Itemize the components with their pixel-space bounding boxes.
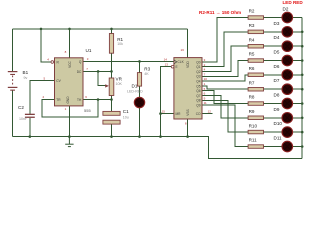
resistor R8 [248, 95, 263, 106]
svg-text:R3: R3 [144, 67, 150, 72]
wire U1 pin5 CV to C2 [30, 81, 55, 114]
battery B1 [8, 70, 29, 91]
wire rail to U1 vcc pin8 [69, 29, 71, 58]
wire R9 to D9 [264, 117, 283, 119]
wire C1 top lead [111, 100, 113, 112]
wire U2 Q0 to R2 row [202, 18, 248, 62]
LED D7 [274, 78, 293, 94]
svg-text:10k: 10k [117, 42, 123, 46]
svg-text:Q4: Q4 [196, 80, 200, 84]
wire D5 to bus [293, 60, 303, 62]
svg-text:TR: TR [56, 98, 61, 102]
svg-text:12: 12 [208, 110, 212, 114]
wire U2 MR pin15 [161, 113, 174, 115]
wire LED cathode bus [301, 18, 303, 159]
svg-text:D10: D10 [274, 121, 283, 126]
wire U2 vss pin8 [187, 119, 189, 137]
svg-text:Q9: Q9 [196, 104, 200, 108]
timer IC U1 555 [43, 48, 92, 113]
resistor R4 [248, 37, 263, 48]
svg-text:Q8: Q8 [196, 99, 200, 103]
LED D10 [274, 121, 293, 137]
svg-text:Q0: Q0 [196, 60, 200, 64]
svg-text:VSS: VSS [186, 109, 190, 115]
svg-text:10u: 10u [123, 115, 129, 119]
svg-text:10nF: 10nF [19, 117, 28, 121]
wire D1 to ground rail [139, 108, 141, 137]
svg-text:MR: MR [176, 112, 182, 116]
potentiometer VR [105, 77, 122, 96]
resistor R2 [248, 9, 263, 20]
svg-text:D8: D8 [274, 93, 280, 98]
wire U2 Q9 to R11 row [202, 105, 248, 146]
svg-text:D11: D11 [274, 136, 283, 141]
wire R7 to D7 [264, 88, 283, 90]
svg-text:E: E [176, 65, 178, 69]
svg-text:LED-RED: LED-RED [127, 89, 143, 93]
LED D2 [282, 7, 293, 23]
svg-text:10: 10 [204, 77, 208, 81]
wire U1 pin2 trigger loop [42, 99, 98, 117]
IC U2 4017 counter [162, 48, 212, 125]
wire R11 to D11 [264, 146, 283, 148]
LED D6 [274, 64, 293, 80]
svg-text:VR: VR [116, 77, 123, 82]
capacitor C1 [103, 109, 129, 124]
svg-text:R2: R2 [249, 9, 255, 14]
resistor R6 [248, 66, 263, 77]
LED D5 [274, 50, 293, 66]
wire battery bottom [12, 90, 14, 136]
wire VR top lead [111, 71, 113, 78]
svg-text:R5: R5 [249, 52, 255, 57]
svg-text:Q7: Q7 [196, 94, 200, 98]
svg-text:11: 11 [204, 101, 207, 105]
svg-text:10K: 10K [116, 82, 123, 86]
wire bottom ground rail [13, 137, 303, 159]
wire U1 gnd pin1 [68, 106, 70, 137]
resistor R11 [248, 138, 263, 149]
svg-text:R11: R11 [249, 138, 258, 143]
svg-text:16: 16 [181, 48, 185, 52]
wire rail to R1 top [111, 29, 113, 34]
svg-text:Q6: Q6 [196, 89, 200, 93]
svg-text:LED RED: LED RED [283, 0, 304, 5]
LED D11 [274, 136, 293, 152]
wire U2 CO pin12 stub [202, 113, 213, 115]
resistor R3 [248, 23, 263, 34]
svg-text:U1: U1 [86, 48, 92, 53]
wire U1 pin6 threshold [83, 99, 112, 101]
wire U2 enable pin13 and MR pin15 to ground [161, 67, 172, 137]
capacitor C2 [18, 105, 35, 121]
wire R8 to D8 [264, 103, 283, 105]
svg-text:D2: D2 [283, 7, 289, 12]
svg-text:D7: D7 [274, 78, 280, 83]
wire D8 to bus [293, 103, 303, 105]
svg-text:555: 555 [84, 108, 91, 113]
wire U2 Q2 to R4 row [202, 46, 248, 71]
svg-text:VDD: VDD [186, 60, 190, 67]
LED D4 [274, 35, 293, 51]
wire U2 Q7 to R9 row [202, 96, 248, 118]
wire R3 to D1 [139, 86, 141, 97]
svg-text:B1: B1 [23, 70, 29, 75]
wire VR wiper branch [98, 71, 106, 85]
wire U2 Q6 to R8 row [202, 91, 248, 104]
wire R5 to D5 [264, 60, 283, 62]
svg-text:Q2: Q2 [196, 70, 200, 74]
wire U1 pin3 to U2 CLK [83, 60, 174, 62]
wire U2 Q5 to R7 row [202, 86, 248, 89]
svg-text:9v: 9v [24, 76, 28, 80]
svg-text:4K: 4K [144, 72, 149, 76]
wire U2 Q1 to R3 row [202, 32, 248, 67]
svg-text:R2-R11 → 150 Ohm: R2-R11 → 150 Ohm [199, 10, 241, 15]
svg-text:D3: D3 [274, 21, 280, 26]
svg-text:Q3: Q3 [196, 75, 200, 79]
wire top VCC rail [13, 28, 188, 30]
wire C1 bottom lead [111, 124, 113, 137]
resistor R10 [248, 123, 263, 134]
wire R1 bottom to pin7 node [111, 53, 113, 71]
svg-text:C2: C2 [18, 105, 24, 110]
svg-text:D5: D5 [274, 50, 280, 55]
wire R4 to D4 [264, 45, 283, 47]
LED D9 [274, 107, 293, 123]
svg-text:R3: R3 [249, 23, 255, 28]
wire D11 to bus [293, 146, 303, 148]
svg-text:14: 14 [164, 57, 168, 61]
wire D6 to bus [293, 74, 303, 76]
wire D7 to bus [293, 88, 303, 90]
svg-text:15: 15 [162, 110, 166, 114]
wire rail to U2 vdd pin16 [187, 29, 189, 58]
resistor R9 [248, 109, 263, 120]
svg-text:D1: D1 [132, 84, 138, 89]
LED D3 [274, 21, 293, 37]
resistor R7 [248, 80, 263, 91]
resistor R3 [137, 67, 150, 87]
svg-text:CLK: CLK [178, 60, 185, 64]
svg-text:R10: R10 [249, 123, 258, 128]
resistor R5 [248, 52, 263, 63]
svg-text:R7: R7 [249, 80, 255, 85]
svg-text:R6: R6 [249, 66, 255, 71]
svg-text:Q5: Q5 [196, 84, 200, 88]
LED D8 [274, 93, 293, 109]
wire U2 Q3 to R5 row [202, 61, 248, 77]
svg-text:Q1: Q1 [196, 65, 200, 69]
svg-text:DC: DC [77, 70, 82, 74]
wire R3 to D3 [264, 31, 283, 33]
wire D4 to bus [293, 45, 303, 47]
wire D9 to bus [293, 117, 303, 119]
resistor R1 [109, 34, 123, 54]
svg-text:D9: D9 [274, 107, 280, 112]
wire R10 to D10 [264, 131, 283, 133]
svg-text:R4: R4 [249, 37, 255, 42]
wire battery top [12, 29, 14, 72]
wire D2 to bus [293, 17, 303, 19]
svg-text:CO: CO [196, 112, 201, 116]
wire VR bottom lead [111, 96, 113, 100]
svg-text:R9: R9 [249, 109, 255, 114]
svg-text:D4: D4 [274, 35, 280, 40]
wire U1 pin7 discharge [83, 70, 112, 72]
svg-text:D6: D6 [274, 64, 280, 69]
svg-text:VCC: VCC [68, 60, 72, 67]
wire C2 to ground rail [29, 118, 31, 137]
wire D3 to bus [293, 31, 303, 33]
svg-text:13: 13 [165, 62, 169, 66]
wire rail to U1 reset pin4 [41, 29, 52, 62]
ground [65, 137, 73, 147]
wire U2 Q8 to R10 row [202, 100, 248, 132]
svg-text:GND: GND [66, 96, 70, 104]
svg-text:TH: TH [77, 98, 82, 102]
svg-text:R8: R8 [249, 95, 255, 100]
wire R6 to D6 [264, 74, 283, 76]
wire D10 to bus [293, 131, 303, 133]
wire U2 Q4 to R6 row [202, 75, 248, 81]
LED D1 [127, 84, 145, 108]
wire R3 top lead [139, 61, 141, 72]
wire R2 to D2 [264, 17, 283, 19]
svg-text:C1: C1 [123, 109, 129, 114]
